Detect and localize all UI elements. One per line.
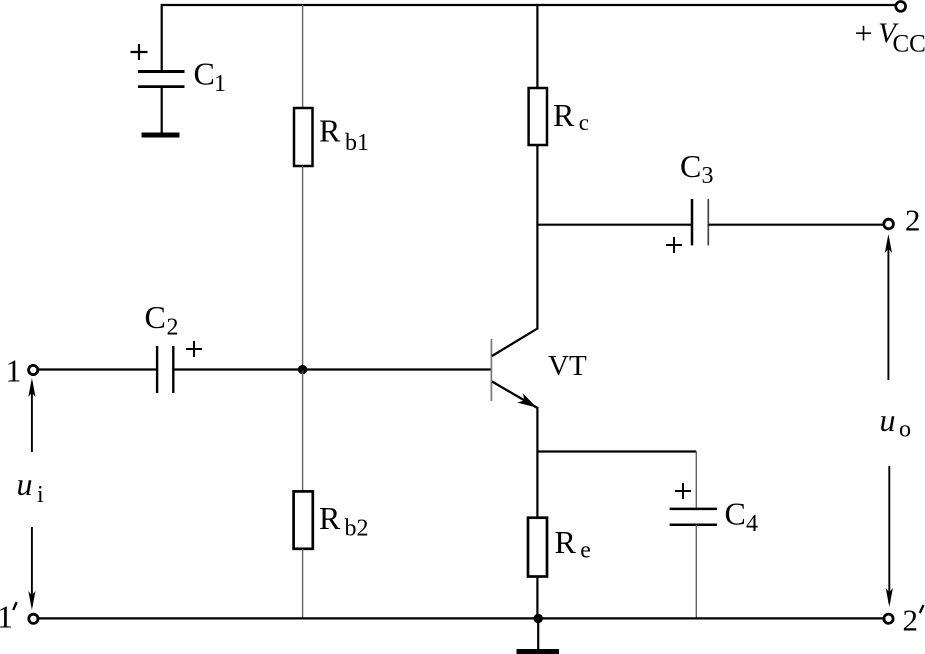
- label C2: [145, 299, 179, 341]
- wire C1 bottom: [161, 87, 163, 133]
- resistor Rb2: [294, 491, 313, 548]
- label C4: [725, 496, 759, 538]
- svg-text:VT: VT: [548, 350, 587, 382]
- label + of C2: [186, 341, 202, 357]
- label Rb1: [319, 113, 369, 157]
- arrow uo down: [886, 466, 893, 607]
- node base junction: [298, 365, 307, 374]
- label C1: [194, 56, 227, 98]
- resistor Rb1: [294, 108, 313, 166]
- transistor VT emitter stroke: [492, 382, 537, 408]
- wire C4 bottom: [695, 525, 697, 619]
- svg-text:C: C: [680, 148, 701, 184]
- wire collector node to C3: [537, 224, 692, 226]
- wire C1 top: [161, 4, 163, 71]
- svg-text:3: 3: [702, 163, 714, 189]
- terminal +VCC: [896, 2, 906, 12]
- svg-text:R: R: [319, 113, 341, 149]
- capacitor C4: [670, 509, 717, 525]
- wire Rb2 to bottom rail: [302, 549, 304, 619]
- transistor VT emitter arrowhead: [517, 393, 536, 407]
- transistor VT collector stroke: [492, 328, 538, 356]
- wire ground stub: [537, 619, 539, 650]
- label + of C1: [131, 44, 148, 60]
- svg-text:i: i: [37, 482, 44, 508]
- svg-text:R: R: [555, 524, 577, 560]
- arrow ui up: [28, 378, 35, 452]
- wire C3 to terminal 2: [708, 224, 882, 226]
- wire Re to bottom rail: [536, 577, 538, 619]
- svg-text:1: 1: [6, 352, 22, 388]
- svg-text:1: 1: [214, 71, 226, 97]
- svg-text:c: c: [579, 110, 589, 135]
- capacitor C1: [138, 72, 185, 87]
- arrow uo up: [885, 234, 892, 380]
- wire emitter tap to C4: [537, 450, 696, 452]
- wire emitter down: [536, 407, 538, 518]
- terminal 2: [884, 219, 894, 229]
- svg-text:e: e: [580, 538, 591, 564]
- svg-text:u: u: [17, 466, 33, 502]
- label Re: [555, 524, 591, 564]
- svg-text:o: o: [899, 417, 911, 443]
- wire bottom rail: [39, 617, 883, 619]
- svg-text:C: C: [194, 56, 215, 92]
- ground: [517, 649, 560, 654]
- svg-text:2: 2: [167, 315, 179, 341]
- wire top rail: [162, 4, 895, 6]
- svg-text:b1: b1: [345, 130, 369, 156]
- label +VCC: [855, 15, 925, 58]
- label C3: [680, 148, 714, 189]
- svg-text:C: C: [725, 496, 746, 532]
- wire terminal 1 to C2: [39, 368, 157, 370]
- ground bar of C1: [142, 133, 180, 138]
- wire C4 top: [695, 452, 697, 509]
- svg-text:2: 2: [905, 203, 921, 238]
- wire Rc top: [536, 4, 538, 88]
- transistor VT base bar: [490, 339, 492, 401]
- terminal 1': [29, 614, 38, 623]
- svg-text:R: R: [553, 97, 575, 133]
- svg-text:+: +: [855, 15, 873, 51]
- label 1': [0, 598, 17, 634]
- svg-text:b2: b2: [345, 516, 369, 542]
- capacitor C3: [692, 199, 708, 245]
- label + of C4: [675, 483, 691, 499]
- svg-text:R: R: [319, 500, 341, 536]
- resistor Re: [528, 518, 547, 577]
- label Rb2: [319, 500, 369, 542]
- svg-text:4: 4: [746, 511, 758, 537]
- label uo: [880, 402, 912, 443]
- label ui: [17, 466, 45, 508]
- capacitor C2: [157, 346, 173, 393]
- resistor Rc: [529, 88, 547, 145]
- arrow ui down: [28, 527, 35, 610]
- wire base node to transistor base: [303, 368, 492, 370]
- terminal 2': [884, 614, 893, 623]
- wire C2 to base node: [173, 368, 302, 370]
- wire Rc to collector: [536, 145, 538, 330]
- wire base node to Rb2: [302, 370, 304, 492]
- label 2': [903, 603, 924, 638]
- svg-text:2: 2: [903, 603, 919, 638]
- svg-text:CC: CC: [893, 31, 925, 58]
- svg-text:u: u: [880, 402, 896, 438]
- label + of C3: [666, 237, 682, 253]
- svg-text:1: 1: [0, 598, 13, 634]
- wire Rb1 to base node: [302, 166, 304, 370]
- label Rc: [553, 97, 589, 135]
- terminal 1: [29, 365, 38, 374]
- wire Rb1 top: [302, 5, 304, 108]
- svg-text:C: C: [145, 299, 166, 335]
- node emitter-ground junction: [534, 614, 543, 623]
